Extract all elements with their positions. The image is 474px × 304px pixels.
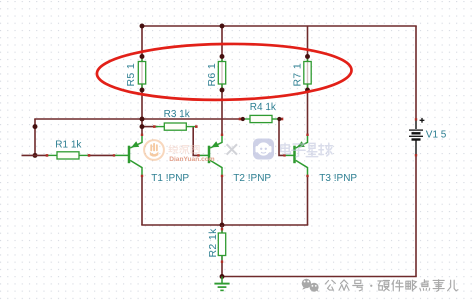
label R2 1k — [207, 228, 219, 258]
wire R7 to T3 emitter — [307, 90, 309, 135]
footer text — [325, 280, 458, 292]
svg-text:R3 1k: R3 1k — [164, 109, 191, 120]
wire R1 to T1 base — [89, 154, 114, 156]
label T1 !PNP — [151, 173, 189, 184]
wire R2 bottom to ground node — [221, 262, 223, 277]
wire rail to R5 — [141, 26, 143, 57]
watermark ezxq text — [281, 143, 333, 157]
wechat icon — [302, 279, 319, 293]
watermark ezxq logo — [253, 139, 274, 160]
svg-text:R4 1k: R4 1k — [250, 102, 277, 113]
label R6 1 — [206, 63, 218, 87]
label R4 1k — [250, 102, 277, 113]
watermark dianyuan url — [169, 156, 215, 163]
junction dot R4 right — [277, 117, 281, 121]
wire upper horizontal to R4 — [34, 118, 242, 120]
wire T2 collector down — [221, 176, 223, 225]
wire T3 collector down — [307, 176, 309, 225]
resistor R7 — [304, 54, 311, 92]
annotation red ellipse — [97, 42, 352, 101]
transistor T3 — [283, 134, 308, 177]
transistor T1 — [113, 134, 143, 177]
wire R3 to T2 base — [193, 127, 198, 156]
svg-text:DianYuan.com: DianYuan.com — [169, 156, 215, 163]
wire R3 left link — [142, 126, 158, 128]
label R5 1 — [125, 63, 137, 87]
svg-text:T3 !PNP: T3 !PNP — [319, 173, 357, 184]
svg-text:R1 1k: R1 1k — [55, 140, 82, 151]
junction dot collector bus R2 — [220, 223, 225, 228]
svg-text:T1 !PNP: T1 !PNP — [151, 173, 189, 184]
battery V1 — [409, 118, 424, 156]
label R7 1 — [292, 63, 304, 87]
watermark dianyuan logo — [144, 140, 164, 160]
wire +V top rail — [141, 25, 417, 27]
junction dot R4 left — [241, 117, 245, 121]
label R3 1k — [164, 109, 191, 120]
wire rail to R6 — [221, 26, 223, 57]
junction dot left column base bus — [33, 153, 38, 158]
svg-text:V1 5: V1 5 — [426, 129, 447, 140]
resistor R5 — [138, 54, 145, 92]
wire rail to R7 — [307, 26, 309, 57]
junction dot left column upper — [33, 124, 38, 129]
wire collector bus — [141, 224, 308, 226]
wire battery plus vertical — [415, 26, 417, 119]
junction dot rail-R5 — [140, 24, 145, 29]
junction dot rail-R6 — [220, 24, 225, 29]
resistor R6 — [218, 54, 225, 92]
wire R5 to T1 emitter — [141, 90, 143, 135]
watermark dianyuan text — [169, 145, 199, 154]
svg-text:R7 1: R7 1 — [292, 63, 304, 87]
svg-text:R2 1k: R2 1k — [207, 228, 219, 258]
label T2 !PNP — [233, 173, 271, 184]
watermark cross mark — [227, 144, 237, 154]
wire T1 collector down — [141, 176, 143, 225]
resistor R1 — [46, 152, 91, 159]
wire base bus left stub — [22, 154, 48, 156]
junction dot upper wire T1 emitter — [140, 117, 145, 122]
label T3 !PNP — [319, 173, 357, 184]
transistor T2 — [197, 134, 223, 177]
wire R4 to T3 base — [279, 119, 285, 155]
label R1 1k — [55, 140, 82, 151]
svg-text:R6 1: R6 1 — [206, 63, 218, 87]
wire battery minus vertical — [415, 156, 417, 277]
resistor R2 — [218, 225, 225, 263]
resistor R4 — [239, 115, 284, 122]
wire left column vertical — [34, 119, 36, 155]
ground — [214, 277, 229, 291]
svg-text:R5 1: R5 1 — [125, 63, 137, 87]
resistor R3 — [153, 123, 198, 130]
junction dot R3 link — [140, 124, 145, 129]
svg-text:T2 !PNP: T2 !PNP — [233, 173, 271, 184]
wire ground node to battery — [222, 276, 417, 278]
junction dot ground node — [220, 274, 225, 279]
label V1 5 — [426, 129, 447, 140]
wire R6 to T2 emitter — [221, 90, 223, 135]
